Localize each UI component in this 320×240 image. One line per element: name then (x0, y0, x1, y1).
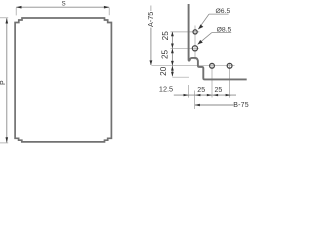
svg-text:P: P (0, 80, 7, 85)
svg-text:25: 25 (197, 87, 205, 94)
svg-text:B-75: B-75 (233, 102, 249, 109)
svg-text:12.5: 12.5 (159, 85, 173, 94)
svg-text:25: 25 (161, 50, 170, 60)
svg-text:25: 25 (215, 87, 223, 94)
svg-text:A-75: A-75 (146, 12, 155, 27)
svg-text:S: S (62, 1, 66, 8)
svg-text:20: 20 (159, 66, 168, 76)
svg-text:25: 25 (161, 31, 170, 41)
